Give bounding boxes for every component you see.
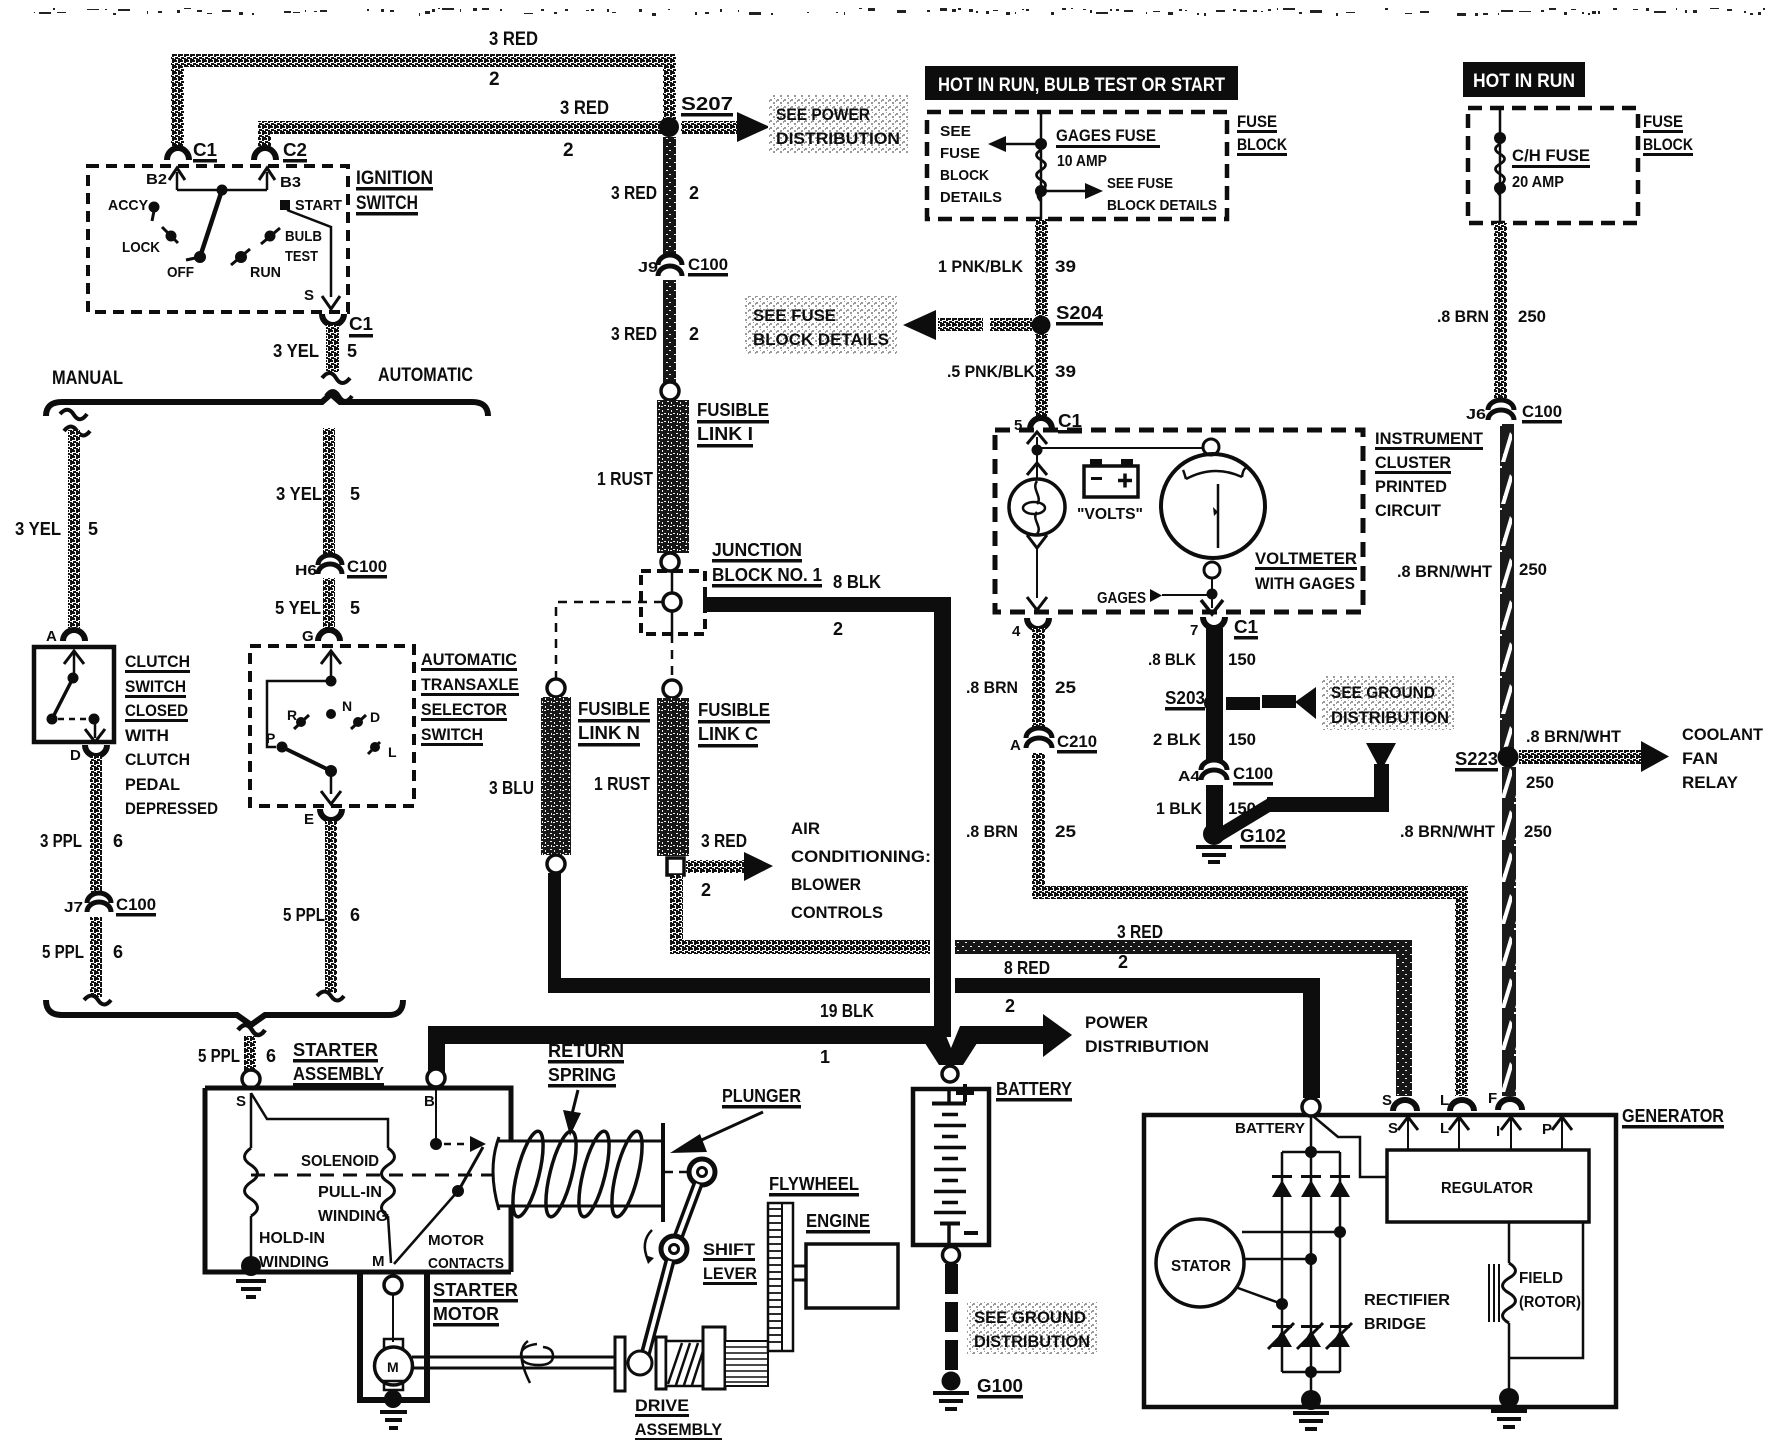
ground wire dashed thick [945, 1264, 958, 1294]
svg-text:G: G [302, 628, 314, 645]
SECTION: center wires [428, 137, 1412, 1072]
SECTION: fuseblocks [903, 62, 1694, 434]
bottom diodes with strike [1268, 1323, 1352, 1349]
wire .8 BRN 25 upper [1032, 628, 1045, 730]
svg-text:250: 250 [1519, 560, 1547, 579]
svg-text:BATTERY: BATTERY [996, 1079, 1072, 1099]
svg-text:C100: C100 [1233, 764, 1273, 783]
svg-text:PULL-IN: PULL-IN [318, 1184, 382, 1201]
solenoid cylinder [493, 1137, 662, 1210]
svg-text:25: 25 [1055, 678, 1076, 697]
rectifier ground [1305, 1366, 1317, 1378]
svg-text:39: 39 [1055, 362, 1076, 381]
svg-text:S223: S223 [1455, 749, 1498, 769]
note box SEE POWER DISTRIBUTION [768, 95, 908, 153]
svg-text:5: 5 [88, 519, 98, 539]
svg-text:3 BLU: 3 BLU [489, 778, 534, 798]
ground G100 [942, 1372, 961, 1391]
hold-in ground [241, 1256, 261, 1276]
voltmeter bottom terminal [1204, 562, 1220, 578]
svg-text:3 RED: 3 RED [489, 29, 538, 50]
svg-text:.8 BRN/WHT: .8 BRN/WHT [1526, 727, 1622, 746]
svg-text:IGNITION: IGNITION [356, 168, 433, 189]
svg-text:MOTOR: MOTOR [433, 1304, 499, 1324]
svg-text:PEDAL: PEDAL [125, 775, 180, 794]
svg-text:5 PPL: 5 PPL [198, 1046, 240, 1066]
wire manual 3 YEL [68, 430, 80, 628]
svg-text:C/H FUSE: C/H FUSE [1512, 146, 1590, 165]
svg-text:SWITCH: SWITCH [421, 725, 483, 744]
manual wire squiggle at bracket [84, 996, 111, 1005]
terminal circle link N bottom [547, 855, 565, 873]
svg-text:"VOLTS": "VOLTS" [1077, 506, 1143, 523]
svg-text:RUN: RUN [250, 264, 281, 281]
svg-text:SEE POWER: SEE POWER [776, 105, 870, 124]
svg-text:SHIFT: SHIFT [703, 1240, 756, 1259]
wire S203 to ground distribution [1226, 697, 1260, 710]
svg-text:P: P [1542, 1121, 1552, 1138]
svg-text:2: 2 [689, 183, 699, 203]
svg-text:BULB: BULB [285, 228, 322, 245]
wire .5 PNK/BLK [1035, 334, 1048, 416]
svg-text:BLOCK: BLOCK [1643, 135, 1694, 154]
wire 1 BLK 150 [1206, 785, 1223, 827]
note box SEE GROUND DISTRIBUTION [967, 1302, 1097, 1354]
wire 5 PPL [90, 917, 102, 997]
svg-text:CLUTCH: CLUTCH [125, 652, 190, 671]
terminal S circle [242, 1070, 260, 1088]
contact RUN [235, 251, 247, 263]
svg-text:DETAILS: DETAILS [940, 189, 1002, 206]
wire START to S [287, 210, 331, 297]
svg-text:VOLTMETER: VOLTMETER [1255, 549, 1357, 568]
hold-in winding coil [245, 1148, 258, 1216]
fusible link C [657, 698, 689, 856]
SECTION: rightwires [1397, 424, 1764, 1096]
svg-text:FUSIBLE: FUSIBLE [697, 400, 769, 420]
flywheel gear [768, 1203, 793, 1351]
svg-text:GAGES: GAGES [1097, 590, 1146, 607]
battery icon [1084, 466, 1138, 497]
svg-text:LINK N: LINK N [578, 723, 640, 743]
note box SEE FUSE BLOCK DETAILS [745, 296, 897, 354]
svg-text:D: D [370, 709, 380, 725]
svg-text:ENGINE: ENGINE [806, 1211, 870, 1231]
node and left arrow [1035, 138, 1047, 150]
branch bracket top [46, 394, 488, 416]
svg-text:20 AMP: 20 AMP [1512, 174, 1564, 191]
junction block internal wire [671, 571, 674, 634]
starter motor [392, 1294, 394, 1342]
svg-text:8 RED: 8 RED [1004, 958, 1050, 978]
svg-text:3 RED: 3 RED [611, 324, 657, 344]
svg-text:GENERATOR: GENERATOR [1622, 1106, 1724, 1126]
svg-text:L: L [388, 744, 397, 760]
wire B2-B3 bridge [177, 189, 267, 192]
svg-text:CONTACTS: CONTACTS [428, 1255, 504, 1272]
svg-text:M: M [387, 1359, 399, 1375]
terminal circle link I top [661, 382, 679, 400]
generator box [1144, 1115, 1616, 1407]
svg-text:SEE: SEE [940, 123, 971, 140]
svg-text:BLOCK: BLOCK [1237, 135, 1288, 154]
note box SEE GROUND DISTRIBUTION [1321, 676, 1455, 730]
motor ground [384, 1390, 402, 1408]
svg-text:.8 BRN: .8 BRN [966, 678, 1018, 697]
splice squiggle above bracket [322, 373, 352, 401]
selector P bracket wire [267, 681, 331, 747]
shift lever [689, 1159, 715, 1185]
field rotor core [1489, 1264, 1499, 1322]
contact N [326, 709, 336, 719]
wire 3 RED vertical to S [1396, 940, 1412, 1096]
transaxle selector dashed box [250, 646, 414, 806]
scan noise band top [34, 8, 1765, 16]
clutch switch arrow in [73, 652, 76, 674]
contact R [296, 717, 306, 727]
svg-text:REGULATOR: REGULATOR [1441, 1180, 1533, 1197]
svg-text:.8 BRN/WHT: .8 BRN/WHT [1397, 562, 1493, 581]
fusible link I [657, 400, 689, 553]
pivot rotation arc [645, 1230, 652, 1260]
svg-text:1 RUST: 1 RUST [594, 774, 650, 794]
svg-text:A4: A4 [1178, 768, 1201, 785]
starter assembly box [205, 1088, 511, 1272]
svg-text:B2: B2 [146, 171, 167, 188]
svg-text:2: 2 [833, 619, 843, 639]
pull-in winding coil [382, 1148, 395, 1216]
connector C1 (ignition bottom) [322, 314, 344, 325]
field circuit wires [1508, 1222, 1511, 1263]
svg-text:POWER: POWER [1085, 1013, 1148, 1032]
cluster output arrow (pin 7) [1211, 594, 1213, 608]
wire 3 YEL from C1 down [326, 325, 339, 372]
svg-text:STARTER: STARTER [433, 1280, 518, 1300]
svg-text:FLYWHEEL: FLYWHEEL [769, 1174, 859, 1194]
svg-text:ACCY: ACCY [108, 197, 148, 214]
motor contacts [435, 1087, 437, 1140]
svg-text:C1: C1 [193, 140, 217, 160]
fusible link N [541, 697, 571, 855]
voltmeter gauge [1161, 454, 1265, 558]
svg-text:7: 7 [1190, 622, 1198, 639]
branch arrow to bulb [1027, 463, 1047, 475]
svg-text:6: 6 [113, 831, 123, 851]
svg-text:S207: S207 [681, 94, 733, 114]
merged wire squiggle [238, 1025, 265, 1035]
regulator box [1387, 1150, 1589, 1222]
banner HOT IN RUN [1463, 62, 1585, 97]
svg-text:J9: J9 [638, 259, 658, 276]
svg-text:DISTRIBUTION: DISTRIBUTION [1331, 708, 1449, 727]
SECTION: generator [1144, 940, 1724, 1429]
svg-text:1 BLK: 1 BLK [1156, 799, 1203, 818]
contact P [277, 742, 288, 753]
svg-text:DISTRIBUTION: DISTRIBUTION [1085, 1037, 1209, 1056]
dashed wire to link N [556, 602, 663, 678]
wire .8 BLK 150 [1206, 628, 1223, 690]
plunger arrow [695, 1112, 763, 1143]
svg-text:S: S [1382, 1092, 1392, 1109]
battery bottom terminal circle [943, 1247, 960, 1264]
svg-text:(ROTOR): (ROTOR) [1519, 1294, 1581, 1311]
svg-text:.8 BRN: .8 BRN [966, 822, 1018, 841]
svg-text:SELECTOR: SELECTOR [421, 700, 507, 719]
svg-text:2: 2 [701, 880, 711, 900]
wire arrow to coolant fan relay [1519, 750, 1641, 764]
svg-text:250: 250 [1526, 773, 1554, 792]
ground G102 [1203, 823, 1225, 845]
clutch switch box [34, 647, 114, 742]
SECTION: starter [205, 1040, 898, 1440]
svg-text:DISTRIBUTION: DISTRIBUTION [776, 129, 900, 148]
svg-text:DEPRESSED: DEPRESSED [125, 799, 218, 818]
svg-text:LOCK: LOCK [122, 239, 160, 256]
wire 8 RED from link N [548, 873, 561, 979]
svg-text:1: 1 [820, 1047, 830, 1067]
svg-text:SWITCH: SWITCH [125, 677, 186, 696]
wire manual branch squiggle [60, 410, 90, 436]
svg-text:FUSIBLE: FUSIBLE [698, 700, 770, 720]
svg-text:25: 25 [1055, 822, 1076, 841]
selector arrow out [330, 771, 333, 794]
banner HOT IN RUN, BULB TEST OR START [925, 66, 1238, 100]
svg-text:TEST: TEST [285, 248, 318, 265]
svg-text:150: 150 [1228, 730, 1256, 749]
svg-text:WITH: WITH [125, 726, 169, 745]
svg-text:S203: S203 [1165, 688, 1205, 708]
connector C2 (ignition top) [254, 148, 276, 160]
wire 5 PPL to starter [244, 1036, 256, 1072]
wire 3 RED S207 to C100 [663, 137, 676, 257]
wire to power distribution arrow [975, 1026, 1045, 1044]
fuse block dashed box (C/H) [1468, 108, 1638, 223]
stator [1156, 1219, 1244, 1307]
svg-text:DRIVE: DRIVE [635, 1396, 689, 1415]
drive hatched cylinder [666, 1341, 703, 1386]
engine coupling [793, 1266, 806, 1280]
battery feed chevron [914, 1026, 988, 1065]
svg-text:5 PPL: 5 PPL [283, 905, 325, 925]
svg-text:150: 150 [1228, 650, 1256, 669]
shaft rotation loop [521, 1341, 553, 1383]
svg-text:FAN: FAN [1682, 749, 1718, 768]
wire 3 RED (top run, C1 to S207) [171, 54, 676, 67]
svg-text:BLOCK DETAILS: BLOCK DETAILS [753, 330, 889, 349]
automatic squiggle at bracket [317, 992, 344, 1001]
SECTION: battery [913, 1066, 1097, 1409]
svg-text:FIELD: FIELD [1519, 1270, 1563, 1287]
svg-text:LEVER: LEVER [703, 1264, 757, 1283]
svg-text:L: L [1440, 1120, 1449, 1137]
wire 3 RED to generator S [670, 940, 930, 954]
wire 3 RED C100 to link I [663, 280, 676, 383]
svg-text:SOLENOID: SOLENOID [301, 1153, 379, 1170]
svg-text:MOTOR: MOTOR [428, 1232, 484, 1249]
svg-text:C210: C210 [1057, 732, 1097, 751]
clutch lever [52, 678, 73, 719]
wire automatic 3 YEL [323, 428, 335, 556]
gages fuse wire [1040, 112, 1043, 219]
svg-text:6: 6 [113, 942, 123, 962]
fuse element C/H [1496, 144, 1505, 195]
wire S to windings [251, 1093, 388, 1148]
svg-text:ASSEMBLY: ASSEMBLY [293, 1064, 384, 1084]
ignition switch dashed box [88, 166, 348, 312]
wire 3 RED arrow to blower [686, 860, 744, 873]
plus sign [956, 1084, 974, 1102]
svg-text:2: 2 [1005, 996, 1015, 1016]
svg-text:250: 250 [1518, 307, 1546, 326]
svg-text:CONTROLS: CONTROLS [791, 903, 883, 922]
rectifier rails [1310, 1117, 1313, 1152]
wire 3 RED down from link C [670, 875, 683, 941]
indicator bulb [1009, 479, 1065, 535]
svg-text:R: R [287, 707, 297, 723]
wire 8 RED vertical to battery terminal [1303, 978, 1320, 1098]
svg-text:E: E [304, 811, 314, 828]
svg-text:CLUTCH: CLUTCH [125, 750, 190, 769]
splice S207 [659, 117, 679, 137]
svg-text:AUTOMATIC: AUTOMATIC [421, 650, 517, 669]
svg-text:HOLD-IN: HOLD-IN [259, 1230, 325, 1247]
svg-text:C100: C100 [116, 895, 156, 914]
wire 2 BLK 150 [1206, 690, 1223, 762]
motor shaft [412, 1357, 620, 1368]
svg-text:J6: J6 [1466, 406, 1486, 423]
svg-text:SWITCH: SWITCH [356, 193, 418, 214]
svg-text:COOLANT: COOLANT [1682, 725, 1764, 744]
svg-text:SEE FUSE: SEE FUSE [753, 306, 836, 325]
svg-text:RELAY: RELAY [1682, 773, 1739, 792]
wire 19 BLK [428, 1026, 928, 1044]
svg-text:8 BLK: 8 BLK [833, 572, 881, 592]
svg-text:.5 PNK/BLK: .5 PNK/BLK [947, 362, 1036, 381]
svg-text:HOT IN RUN, BULB TEST OR START: HOT IN RUN, BULB TEST OR START [938, 75, 1225, 96]
wire 5 PPL automatic [325, 821, 337, 993]
contact L [370, 742, 380, 752]
svg-text:5 YEL: 5 YEL [275, 598, 321, 618]
drive splines [725, 1341, 768, 1386]
plunger end plate [661, 1123, 665, 1222]
terminal M circle [384, 1276, 402, 1294]
svg-text:39: 39 [1055, 257, 1076, 276]
wire 1 PNK/BLK [1035, 219, 1048, 316]
svg-text:TRANSAXLE: TRANSAXLE [421, 675, 519, 694]
svg-text:SPRING: SPRING [548, 1065, 616, 1085]
field ground [1499, 1388, 1519, 1408]
svg-text:GAGES FUSE: GAGES FUSE [1056, 126, 1156, 145]
svg-text:10 AMP: 10 AMP [1057, 153, 1107, 170]
selector arrow in [330, 652, 333, 681]
svg-text:FUSE: FUSE [1237, 112, 1277, 131]
arrow S204 to fuse details [938, 318, 983, 331]
svg-text:LINK I: LINK I [697, 424, 753, 444]
svg-text:SEE GROUND: SEE GROUND [1331, 683, 1435, 702]
drive collar [703, 1327, 725, 1389]
wire 3 RED (second run, C2 to S207) [258, 121, 663, 134]
motor housing channel [357, 1272, 430, 1400]
svg-text:P: P [266, 730, 275, 746]
svg-text:RECTIFIER: RECTIFIER [1364, 1292, 1450, 1309]
junction block no.1 dashed box [641, 571, 705, 634]
svg-text:2: 2 [1118, 952, 1128, 972]
svg-text:A: A [46, 628, 57, 645]
svg-text:1 RUST: 1 RUST [597, 469, 653, 489]
cluster input arrow [1027, 432, 1047, 444]
splice S204 [1032, 316, 1051, 335]
terminal B2 arrow [176, 172, 179, 190]
contact BULB TEST [265, 231, 276, 242]
contact OFF [194, 251, 206, 263]
engine box [806, 1244, 898, 1308]
wire 3 PPL [90, 756, 102, 894]
wire .8 BRN 25 lower [1032, 753, 1045, 899]
svg-text:1 PNK/BLK: 1 PNK/BLK [938, 257, 1024, 276]
svg-text:BLOWER: BLOWER [791, 875, 861, 894]
wire .8 BRN/WHT J6 to S223 [1500, 424, 1514, 750]
connector G [318, 630, 340, 641]
svg-text:CLOSED: CLOSED [125, 701, 188, 720]
svg-text:STARTER: STARTER [293, 1040, 378, 1060]
svg-text:5: 5 [350, 484, 360, 504]
svg-text:3 PPL: 3 PPL [40, 831, 82, 851]
wire 5 YEL [323, 578, 335, 630]
connector E [320, 809, 342, 820]
svg-text:RETURN: RETURN [548, 1041, 624, 1061]
svg-text:2: 2 [563, 140, 574, 161]
svg-text:BLOCK NO. 1: BLOCK NO. 1 [712, 565, 822, 585]
connector A [63, 630, 85, 641]
terminal B3 arrow [266, 172, 269, 190]
terminal square link C bottom [667, 858, 684, 875]
svg-text:S204: S204 [1056, 303, 1103, 323]
svg-text:INSTRUMENT: INSTRUMENT [1375, 429, 1484, 448]
SECTION: cluster [966, 429, 1484, 1096]
connector C1 (ignition top) [167, 148, 189, 160]
svg-text:.8 BRN: .8 BRN [1437, 307, 1489, 326]
svg-text:S: S [1388, 1120, 1398, 1137]
junction node [663, 593, 681, 611]
svg-text:DISTRIBUTION: DISTRIBUTION [974, 1332, 1090, 1351]
svg-text:3 RED: 3 RED [611, 183, 657, 203]
svg-text:C1: C1 [1234, 617, 1258, 637]
contact D [353, 717, 363, 727]
svg-text:19 BLK: 19 BLK [820, 1001, 874, 1021]
svg-text:CLUSTER: CLUSTER [1375, 453, 1451, 472]
svg-text:START: START [295, 197, 342, 214]
svg-text:3 RED: 3 RED [1117, 922, 1163, 942]
svg-text:WINDING: WINDING [259, 1254, 329, 1271]
contact ACCY [149, 202, 160, 213]
svg-text:BLOCK DETAILS: BLOCK DETAILS [1107, 197, 1217, 214]
fuse block dashed box (gages) [927, 112, 1227, 219]
svg-text:3 RED: 3 RED [560, 98, 609, 119]
dashed wire to link C [671, 634, 674, 680]
svg-text:2: 2 [689, 324, 699, 344]
contact START [280, 200, 290, 210]
wire .8 BRN to generator L [1032, 886, 1468, 899]
svg-text:6: 6 [266, 1046, 276, 1066]
svg-text:H6: H6 [295, 562, 317, 579]
svg-text:JUNCTION: JUNCTION [712, 540, 802, 560]
svg-text:OFF: OFF [167, 264, 194, 281]
top diodes [1272, 1175, 1350, 1197]
svg-text:2: 2 [489, 69, 500, 90]
svg-text:S: S [304, 287, 314, 304]
fuse element [1037, 150, 1046, 201]
selector lever [282, 747, 331, 771]
